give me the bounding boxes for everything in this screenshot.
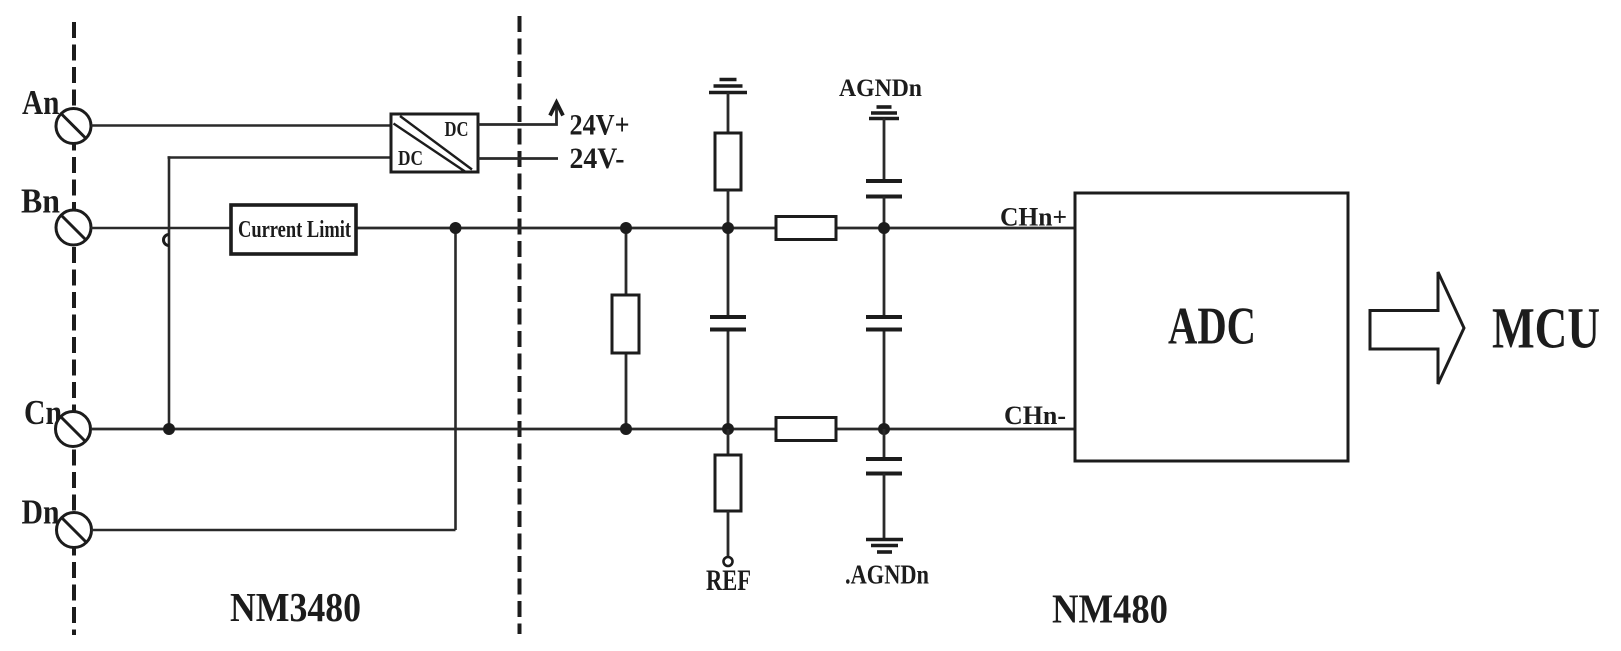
label DC (input side) [398,146,423,170]
svg-text:CHn-: CHn- [1004,401,1066,430]
label REF [706,564,751,597]
wire CHn- to bottom capacitor [883,429,886,459]
junction CHn- right [878,423,890,435]
svg-text:REF: REF [706,564,751,597]
svg-text:24V-: 24V- [570,142,625,175]
svg-text:An: An [22,83,60,122]
terminal An [56,109,91,144]
svg-text:NM3480: NM3480 [230,584,361,630]
junction CHn+ left resistor [620,222,632,234]
label MCU [1492,296,1600,361]
wire hop mark at Bn crossing [164,235,170,246]
svg-text:NM480: NM480 [1052,586,1168,632]
wire right capacitor branch [883,228,886,429]
wire DC/DC second input [168,156,392,159]
wire An to DC/DC input [91,124,391,127]
block arrow ADC to MCU [1370,272,1464,384]
ground (top, chassis up) above bias resistor [709,80,747,93]
svg-text:ADC: ADC [1168,298,1256,356]
wire Dn run [91,529,456,532]
terminal Bn [56,210,91,245]
current limit block [231,205,356,254]
junction Dn/Bn [450,222,462,234]
svg-text:AGNDn: AGNDn [839,75,922,102]
wire ground to bias resistor [727,93,730,134]
capacitor (CHn+ to AGNDn) [866,181,902,197]
module boundary dashed line [518,16,522,634]
svg-text:CHn+: CHn+ [1000,203,1067,232]
label AGNDn (bottom) [845,560,929,590]
wire AGNDn to top capacitor [883,119,886,182]
label 24V- [570,142,625,175]
node REF terminal [724,557,733,566]
label 24V+ [570,109,630,142]
wire bias resistor to CHn+ [727,190,730,228]
wire capacitor to bottom ground [883,474,886,540]
junction CHn- DC branch [163,423,175,435]
svg-text:Bn: Bn [21,182,60,221]
resistor (series, CHn+) [776,217,836,240]
label AGNDn (top) [839,75,922,102]
wire capacitor to CHn+ [883,197,886,229]
wire vertical branch to Cn line [168,156,171,429]
wire Dn vertical up to Bn line [454,228,457,530]
resistor (REF bias) [715,455,741,511]
capacitor (differential, right) [866,317,902,330]
resistor (top bias, CHn+) [715,133,741,190]
wire 24V- output [478,157,558,160]
ground AGNDn (top, chassis up) [869,107,899,119]
svg-text:24V+: 24V+ [570,109,630,142]
label Cn [24,393,62,432]
label An [22,83,60,122]
label CHn+ [1000,203,1067,232]
svg-text:Dn: Dn [22,493,60,532]
capacitor (CHn- to AGNDn) [866,459,902,474]
resistor (series, CHn-) [776,418,836,441]
junction CHn+ middle [722,222,734,234]
field-side boundary dashed line [72,22,76,635]
label NM3480 [230,584,361,630]
wire CHn+ run (Current Limit to ADC) [356,227,1075,230]
svg-text:.AGNDn: .AGNDn [845,560,929,590]
wire CHn- to REF resistor [727,429,730,455]
ADC U2 [1075,193,1348,461]
svg-text:DC: DC [398,146,423,170]
junction CHn- left resistor [620,423,632,435]
arrowhead 24V+ [550,103,563,116]
label CHn- [1004,401,1066,430]
capacitor (differential, middle) [710,317,746,330]
label Dn [22,493,60,532]
terminal Dn [57,513,92,548]
resistor (differential input, left) [612,228,639,429]
svg-text:DC: DC [445,117,469,141]
label NM480 [1052,586,1168,632]
DC/DC converter U1 [391,114,478,172]
svg-text:MCU: MCU [1492,296,1600,361]
wire Bn to Current Limit [91,227,231,230]
terminal Cn [56,412,91,447]
label DC (output side) [445,117,469,141]
junction CHn- middle [722,423,734,435]
junction CHn+ right [878,222,890,234]
wire resistor to REF terminal [727,511,730,557]
wire 24V+ output [478,104,557,125]
label Bn [21,182,60,221]
svg-text:Current Limit: Current Limit [238,217,351,243]
ground AGNDn (bottom) [866,540,903,553]
wire middle capacitor branch [727,228,730,429]
wire Cn / CHn- run [91,428,1075,431]
